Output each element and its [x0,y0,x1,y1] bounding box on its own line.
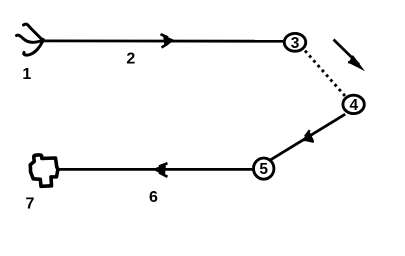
svg-text:4: 4 [349,97,358,114]
arrowhead on edge 4-5 (pointing down-left) [301,130,314,142]
node 3 [284,33,306,51]
dashed edge node3 to node4 [305,51,345,97]
wire edge node4 to node5 [271,114,346,160]
node 4 [343,95,364,113]
svg-text:1: 1 [22,66,31,83]
node 7 blob shape [30,155,58,186]
svg-text:6: 6 [149,189,158,206]
node 5 [254,158,274,179]
node 1 start symbol (three-pronged claw) [17,24,46,55]
wire edge 2 (node1 to node3) [43,40,284,43]
wire edge 6 (node5 to node7) [60,168,253,171]
svg-text:2: 2 [126,51,135,68]
arrowhead on edge 6 (pointing left) [152,163,167,177]
svg-text:7: 7 [26,196,35,213]
svg-text:3: 3 [291,35,300,52]
diagonal arrow (top right annotation) [334,40,366,72]
arrowhead on edge 2 (pointing right) [161,34,176,47]
svg-text:5: 5 [259,161,268,178]
